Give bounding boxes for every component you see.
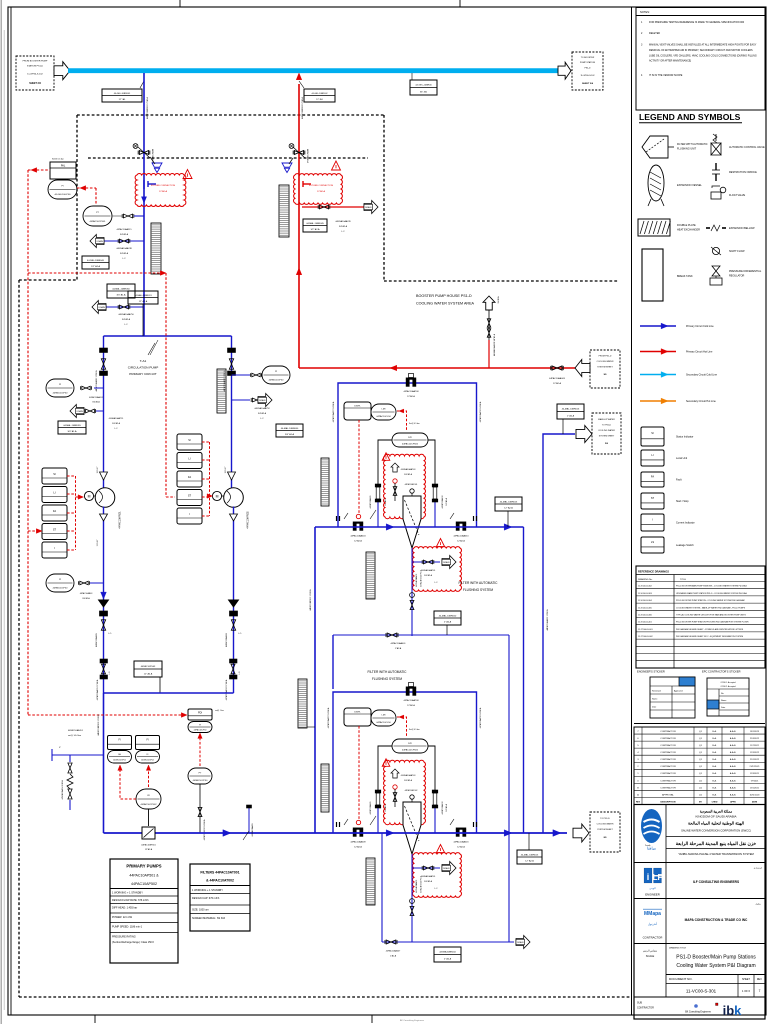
svg-text:L.C: L.C [341, 231, 345, 233]
svg-text:ACTIVITY OR AFTER MAINTENANCE): ACTIVITY OR AFTER MAINTENANCE) [649, 60, 691, 63]
relief valve [67, 763, 73, 799]
svg-text:استشاري: استشاري [754, 867, 763, 870]
svg-text:COOLING WATER SYSTEM - MAKE-UP: COOLING WATER SYSTEM - MAKE-UP WATER P&I… [676, 606, 746, 609]
manifold valve B2 [450, 819, 477, 849]
svg-text:12"A2.A: 12"A2.A [354, 846, 362, 849]
svg-text:DESIGN CAP: 676 m3/h: DESIGN CAP: 676 m3/h [192, 897, 220, 900]
lmi to dpi signal 2 [397, 715, 420, 737]
svg-text:44PAC10AA707 3/4"A2.A: 44PAC10AA707 3/4"A2.A [327, 707, 330, 728]
pump house boundary left upper [76, 115, 78, 280]
svg-text:18/1/2023: 18/1/2023 [750, 731, 760, 733]
svg-text:CONTRACTOR: CONTRACTOR [660, 786, 676, 789]
instrument bubble DPI 2 [392, 739, 428, 753]
instrument bubble PT2 [188, 768, 212, 784]
future connection cloud cold [135, 174, 186, 207]
riser left [314, 527, 316, 833]
svg-text:Primary Circuit Hot Line: Primary Circuit Hot Line [686, 351, 713, 354]
svg-text:FLUSHING UNIT: FLUSHING UNIT [677, 148, 697, 151]
vent line black [488, 310, 490, 340]
svg-text:44PAC10AA020: 44PAC10AA020 [454, 841, 470, 844]
svg-text:CONTRACTOR: CONTRACTOR [643, 936, 663, 940]
drain arrow 2 [92, 301, 106, 314]
svg-text:44PAC10BR010 3/4"A2.A: 44PAC10BR010 3/4"A2.A [203, 819, 206, 840]
signal drop pump2 [166, 273, 175, 497]
filter drain valve 1 [410, 570, 423, 610]
pump1 reducer [97, 466, 108, 480]
svg-text:44-MAL-10BR016: 44-MAL-10BR016 [562, 408, 580, 411]
safety branch pipe [52, 747, 104, 810]
filter outlet line [333, 633, 509, 689]
border frame inner left line [10, 7, 12, 1015]
svg-text:ibk: ibk [723, 1003, 743, 1018]
make-up water line [543, 434, 575, 833]
swcc logo [641, 809, 662, 851]
svg-text:REFERENCE DRAWINGS: REFERENCE DRAWINGS [638, 569, 669, 573]
manifold flow arrow A2 [386, 830, 394, 836]
svg-text:FLOAT VALVE: FLOAT VALVE [729, 194, 746, 197]
svg-text:1"A2.A: 1"A2.A [390, 955, 397, 958]
signal bottom run [28, 713, 187, 718]
instrument box PDI b [136, 736, 160, 750]
document number row [666, 975, 765, 998]
svg-text:SYSTEM SHEET: SYSTEM SHEET [597, 829, 613, 831]
future connection cloud hot [294, 174, 343, 205]
instrument bubble PI pump1 [46, 574, 74, 592]
svg-text:A.A.B.: A.A.B. [730, 793, 737, 796]
svg-text:DATE: DATE [752, 800, 758, 803]
svg-text:مقياس الرسم: مقياس الرسم [643, 950, 657, 953]
svg-text:12"A2.A: 12"A2.A [457, 540, 465, 543]
striped label left 1 [321, 458, 329, 506]
bypass valve 2 [404, 683, 420, 708]
svg-text:LS: LS [651, 540, 654, 544]
pt2 tap [198, 784, 206, 840]
notes header box [636, 8, 765, 16]
bypass loop 1 [338, 383, 477, 527]
svg-text:44GNA10AA752: 44GNA10AA752 [254, 407, 270, 410]
svg-text:DRAIN: DRAIN [517, 941, 524, 944]
svg-text:مقاول: مقاول [755, 903, 761, 906]
pump2 drain arrow [258, 394, 272, 407]
svg-text:DELETED: DELETED [649, 32, 660, 35]
svg-text:44PAC10BR010 12"A2.A: 44PAC10BR010 12"A2.A [97, 714, 100, 736]
svg-text:44PAC10BR001 12"/A2.A: 44PAC10BR001 12"/A2.A [146, 96, 149, 118]
svg-text:EXPANSION BELLOW: EXPANSION BELLOW [729, 227, 755, 230]
border tick top 1 [179, 0, 181, 7]
striped label box riser [298, 679, 315, 728]
title block frame [634, 805, 765, 1020]
svg-text:44-MAL-10BR015: 44-MAL-10BR015 [500, 500, 518, 503]
svg-text:44PAC13AA510: 44PAC13AA510 [441, 496, 444, 509]
make-up label box [557, 404, 584, 434]
svg-text:A.A.B.: A.A.B. [730, 772, 737, 775]
svg-text:44PAC10AA008: 44PAC10AA008 [351, 841, 367, 844]
svg-text:DRAIN: DRAIN [443, 867, 450, 870]
pump1 instrument stack [42, 468, 67, 558]
pump1 suction valve [95, 348, 108, 392]
svg-text:DISPL: DISPL [354, 712, 361, 714]
pump discharge header [104, 692, 234, 694]
svg-text:2" A2.A: 2" A2.A [444, 957, 452, 960]
legend restriction orifice [712, 163, 757, 181]
svg-text:DOUBLE PLATE: DOUBLE PLATE [677, 224, 696, 227]
svg-text:44PAC10AA514: 44PAC10AA514 [306, 149, 309, 163]
svg-text:TO BOOSTER: TO BOOSTER [581, 57, 595, 59]
svg-text:PUMP STATION: PUMP STATION [580, 61, 596, 64]
manifold flow arrow B2 [504, 830, 512, 836]
svg-text:44PAC10AA004: 44PAC10AA004 [351, 535, 367, 538]
svg-text:44GNA10BR004: 44GNA10BR004 [439, 951, 456, 954]
warning triangle cold cloud [183, 170, 192, 179]
svg-text:SHEET 2/4: SHEET 2/4 [582, 82, 594, 85]
svg-text:11-GPS0-S-102: 11-GPS0-S-102 [580, 75, 595, 77]
svg-text:DRAIN: DRAIN [259, 399, 266, 402]
drain branch 1 [104, 239, 144, 243]
svg-text:FILTER WITH AUTOMATIC: FILTER WITH AUTOMATIC [368, 670, 408, 674]
svg-text:SALINE WATER CONVERSION CORPOR: SALINE WATER CONVERSION CORPORATION (SWC… [681, 829, 751, 833]
svg-text:DRAIN: DRAIN [365, 206, 372, 209]
svg-text:44PAC10AA006: 44PAC10AA006 [225, 633, 228, 647]
main line tick b [243, 831, 249, 840]
instrument bubble b [136, 751, 160, 764]
svg-text:44-MAL-10BR011: 44-MAL-10BR011 [134, 294, 152, 297]
reference drawings table [636, 566, 765, 668]
filter drain pipe 2 [411, 854, 413, 942]
striped label left 2 [321, 764, 329, 812]
svg-text:Name: Name [721, 700, 727, 702]
safety valve text [68, 729, 84, 737]
pump2 suction leg [231, 336, 233, 488]
svg-text:44-MAL-10BR050: 44-MAL-10BR050 [439, 614, 457, 617]
svg-text:LUBE OIL COOLERS, VFD CHILLERS: LUBE OIL COOLERS, VFD CHILLERS, HVAC COO… [649, 54, 757, 57]
discharge riser [103, 693, 105, 833]
instrument bubble DPI 1 [392, 433, 428, 447]
bottom drain valve [385, 940, 401, 958]
warning triangle hot cloud [332, 161, 341, 170]
svg-text:CONTRACTOR: CONTRACTOR [660, 765, 676, 768]
pt tap line [112, 215, 122, 217]
hot return vertical pipe [298, 84, 300, 368]
svg-text:DRAWING No.: DRAWING No. [638, 578, 653, 581]
svg-text:3/4"/A2.A: 3/4"/A2.A [445, 803, 448, 811]
svg-text:B.A.: B.A. [712, 730, 717, 733]
label box pump discharge [134, 661, 162, 693]
filter flushing system label 1 [459, 581, 499, 592]
svg-text:L.O.: L.O. [238, 633, 242, 635]
svg-text:11-VC00-S-306: 11-VC00-S-306 [638, 615, 653, 617]
svg-text:Fault: Fault [676, 478, 682, 481]
svg-text:KINGDOM OF SAUDI ARABIA: KINGDOM OF SAUDI ARABIA [695, 815, 736, 819]
svg-text:LI: LI [188, 457, 190, 461]
svg-text:10"x12": 10"x12" [225, 466, 227, 473]
svg-text:44PAC10BR012 12"A2.A: 44PAC10BR012 12"A2.A [309, 589, 312, 611]
title block line 2 [634, 898, 765, 900]
striped label mid 1 [366, 552, 375, 599]
svg-text:P&I DIAGRAM LEGEND SHEET NO.2: P&I DIAGRAM LEGEND SHEET NO.2 - EQUIPMEN… [676, 635, 743, 638]
svg-text:BOOSTER PUMP HOUSE PS1-D: BOOSTER PUMP HOUSE PS1-D [416, 294, 472, 298]
svg-text:44GNA10AA405: 44GNA10AA405 [415, 574, 418, 587]
svg-text:DRAIN: DRAIN [77, 410, 84, 413]
legend title [639, 112, 742, 123]
svg-text:DIFF HEAD: 1.455 bar: DIFF HEAD: 1.455 bar [112, 907, 137, 910]
svg-text:1 WORKING + 1 STANDBY: 1 WORKING + 1 STANDBY [192, 889, 223, 892]
svg-text:(Suction/discharge flange): Cl: (Suction/discharge flange): Class 150 # [112, 941, 154, 944]
svg-text:44PAC10AA051: 44PAC10AA051 [89, 396, 103, 399]
instrument box PAL [50, 162, 76, 179]
svg-text:A.A.B.: A.A.B. [730, 779, 737, 782]
pump1 check valve [95, 600, 112, 647]
scan edge left [1, 0, 4, 1024]
svg-text:3/4"A2.A: 3/4"A2.A [424, 880, 432, 883]
booster pump house area label [416, 294, 475, 306]
signal trunk left [27, 170, 29, 715]
svg-text:44NDA10AA114 6"A2.A: 44NDA10AA114 6"A2.A [61, 780, 64, 800]
svg-text:LF: LF [653, 873, 663, 882]
svg-text:MANUAL VENT VALVES SHALL BE IN: MANUAL VENT VALVES SHALL BE INSTALLED AT… [649, 44, 757, 47]
svg-text:1"A2.A: 1"A2.A [395, 647, 402, 650]
svg-text:ST: ST [651, 496, 655, 500]
bottom drain arrow [516, 936, 530, 949]
svg-text:44-PAL-10BR040: 44-PAL-10BR040 [87, 259, 105, 262]
svg-text:CONTRACTOR: CONTRACTOR [660, 751, 676, 754]
pump1 suction drain [84, 409, 103, 413]
future flushing cloud A2 [382, 759, 425, 825]
svg-text:3/4" A1.A: 3/4" A1.A [67, 430, 77, 433]
svg-text:44PAC10CP50: 44PAC10CP50 [53, 586, 68, 589]
cold supply vertical pipe [143, 73, 145, 336]
svg-text:Secondary Circuit Cold Line: Secondary Circuit Cold Line [686, 374, 718, 377]
svg-text:SIZE: 1000 um: SIZE: 1000 um [192, 908, 209, 911]
svg-text:44PAC10AA003: 44PAC10AA003 [549, 377, 566, 380]
svg-text:SI: SI [651, 431, 654, 435]
svg-text:44PAC10CP50: 44PAC10CP50 [193, 779, 208, 782]
svg-text:44PAC10AA515: 44PAC10AA515 [117, 228, 133, 231]
svg-text:set@ 1 bar: set@ 1 bar [215, 709, 224, 712]
svg-text:A.A.B.: A.A.B. [730, 758, 737, 761]
svg-text:44-GEL-10BR00: 44-GEL-10BR00 [415, 85, 432, 87]
svg-text:PS1-D BOOSTER/MAIN PUMP STATIO: PS1-D BOOSTER/MAIN PUMP STATIONS - COOLI… [676, 585, 747, 588]
svg-text:44GNA10AA749: 44GNA10AA749 [335, 220, 351, 223]
svg-text:3/4"A2.A: 3/4"A2.A [404, 473, 412, 476]
svg-text:BK Consulting Engineers: BK Consulting Engineers [400, 1019, 425, 1022]
svg-text:B.A.: B.A. [712, 744, 717, 747]
svg-text:B.A.: B.A. [712, 765, 717, 768]
flushing drain cloud B1 [412, 539, 461, 592]
svg-text:Current Indicator: Current Indicator [676, 521, 695, 524]
cloud B drain arrow 1 [442, 556, 456, 569]
signal stub stack1 [28, 529, 42, 534]
pump2 header valve [225, 659, 241, 700]
svg-text:T-A1: T-A1 [140, 359, 147, 363]
svg-text:UPGRADED MAIN PUMP STATION PS1: UPGRADED MAIN PUMP STATION PS1-D - COOLI… [676, 592, 748, 595]
border tick bottom 1 [94, 1015, 96, 1023]
svg-text:ENGINEER: ENGINEER [645, 893, 660, 897]
svg-text:Primary Circuit Cold Line: Primary Circuit Cold Line [686, 325, 714, 328]
label box bottom drain [434, 947, 461, 962]
svg-text:7/7/2021: 7/7/2021 [751, 780, 760, 782]
svg-text:CHKD: CHKD [712, 801, 718, 803]
svg-text:SCREEN MATERIAL: SS 316: SCREEN MATERIAL: SS 316 [192, 917, 226, 920]
bypass loop 2 [333, 692, 477, 833]
legend instrument box ST [641, 493, 689, 509]
notes text [641, 21, 757, 77]
pump1 header valve [96, 659, 111, 700]
svg-text:3/4"A2.A: 3/4"A2.A [92, 401, 100, 404]
svg-text:44PAC10AA005: 44PAC10AA005 [95, 633, 98, 647]
dsr output signal 2 [356, 726, 360, 825]
drain funnel on cold supply [152, 163, 162, 173]
svg-text:44-MAL-10BR015: 44-MAL-10BR015 [521, 853, 539, 856]
filter manifold 1 [315, 526, 524, 528]
instrument bubble c [188, 722, 212, 733]
svg-text:M: M [88, 495, 91, 499]
pump2 drain [232, 398, 271, 402]
svg-text:44PAC10AA010: 44PAC10AA010 [454, 535, 470, 538]
svg-text:44-MAL-10BR060: 44-MAL-10BR060 [281, 427, 299, 430]
svg-text:REMOVAL OF ENTRAPPED AIR IN PR: REMOVAL OF ENTRAPPED AIR IN PRIMARY, SEC… [649, 49, 753, 52]
svg-text:FI: FI [118, 739, 120, 742]
svg-text:FI: FI [146, 739, 148, 742]
svg-text:FA: FA [53, 509, 56, 513]
svg-text:10"x12": 10"x12" [97, 466, 99, 473]
svg-text:CONTRACTOR: CONTRACTOR [660, 737, 676, 740]
make-up open arrow [576, 426, 592, 443]
legend secondary cold line [640, 372, 718, 378]
svg-text:44-MAL-10BR050: 44-MAL-10BR050 [112, 287, 130, 290]
instrument bubble PI pump1 suction [46, 379, 74, 397]
svg-text:FA: FA [188, 475, 191, 479]
displacement indicator box 2 [344, 708, 371, 726]
svg-text:12"A2.A: 12"A2.A [317, 190, 325, 193]
svg-text:44PAC10CP501: 44PAC10CP501 [90, 220, 107, 223]
pump house boundary bottom [19, 996, 630, 998]
dpi sense lines 1 [369, 440, 448, 527]
svg-text:SIGHT FLOW: SIGHT FLOW [729, 250, 745, 253]
svg-text:44PAC10AA710 3/4"A2.A: 44PAC10AA710 3/4"A2.A [479, 401, 482, 422]
pump1 discharge reducer [97, 514, 108, 546]
svg-text:44PAC10CP505: 44PAC10CP505 [402, 442, 419, 445]
svg-text:DISPL: DISPL [354, 406, 361, 408]
pump2 reducer [225, 466, 236, 480]
border tick top 2 [459, 0, 461, 7]
svg-text:3/4"A2.A Set@ PG=4: 3/4"A2.A Set@ PG=4 [420, 570, 423, 587]
svg-text:STATION PS1-D: STATION PS1-D [27, 65, 44, 68]
to booster pump station connector box [572, 52, 603, 90]
svg-text:LMI: LMI [382, 409, 386, 411]
svg-text:44-MAL-10BR045: 44-MAL-10BR045 [306, 222, 324, 225]
svg-text:COOLING WATER: COOLING WATER [597, 360, 614, 363]
lmi to dpi signal 1 [397, 409, 420, 431]
svg-text:YANBU-MADINA PHASE-4 WATER TRA: YANBU-MADINA PHASE-4 WATER TRANSMISSION … [678, 852, 754, 856]
svg-text:11-YT000-S-001: 11-YT000-S-001 [638, 629, 654, 631]
vent valve [487, 319, 491, 337]
svg-text:DPI: DPI [408, 743, 412, 745]
svg-text:12" A2.A: 12" A2.A [525, 860, 534, 863]
svg-text:PS1-D BOOSTER PUMP STATION PRO: PS1-D BOOSTER PUMP STATION PROCESS P&I D… [676, 621, 749, 624]
legend expansion vessel [648, 165, 702, 206]
pump1 pi tap [79, 581, 104, 600]
valve group on cold supply at wall [133, 144, 154, 163]
svg-text:3/4"A2.A: 3/4"A2.A [82, 597, 90, 600]
svg-text:FILTER WITH AUTOMATIC: FILTER WITH AUTOMATIC [677, 143, 708, 146]
inner boundary dashed line [88, 157, 368, 159]
svg-text:44GNA10AA748: 44GNA10AA748 [116, 247, 132, 250]
pump2 pi tap [232, 373, 262, 377]
signal stub PAL [28, 168, 50, 173]
svg-text:CONTRACTOR: CONTRACTOR [660, 730, 676, 733]
label box pump1 suction [58, 421, 86, 434]
legend automatic control valve [711, 134, 765, 155]
svg-text:44GNA10AA701: 44GNA10AA701 [421, 875, 437, 878]
svg-text:44PAC10CP505: 44PAC10CP505 [402, 748, 419, 751]
svg-text:44PAC10AA022 12"A2.A: 44PAC10AA022 12"A2.A [546, 609, 549, 631]
title block line 1 [634, 862, 765, 864]
svg-text:Reviewed: Reviewed [652, 691, 661, 693]
svg-text:44PAC10PS03: 44PAC10PS03 [141, 665, 156, 668]
svg-text:44GEL10CF02: 44GEL10CF02 [141, 760, 154, 762]
svg-text:44PAC10BP001: 44PAC10BP001 [141, 844, 156, 847]
svg-text:ENGINEER'S STICKER: ENGINEER'S STICKER [637, 670, 665, 674]
sight flow indicator [141, 827, 156, 851]
svg-text:FILTER WITH AUTOMATIC: FILTER WITH AUTOMATIC [459, 581, 499, 585]
pump house boundary bottom right [384, 280, 619, 282]
svg-text:44PAC10CL50: 44PAC10CL50 [376, 721, 391, 724]
svg-text:2" A2.A: 2" A2.A [444, 621, 452, 624]
striped label box hot return [279, 185, 289, 237]
valve group on hot return at wall [289, 144, 305, 158]
svg-text:44PAC10AA151: 44PAC10AA151 [68, 729, 84, 732]
svg-text:21/12/2021: 21/12/2021 [749, 766, 760, 768]
primary pumps data table [110, 859, 178, 963]
legend secondary hot line [640, 398, 716, 404]
drawing title [669, 947, 756, 970]
pump1 suction drain arrow [70, 405, 84, 418]
svg-text:FOR PRESSURE TESTING REFERENCE: FOR PRESSURE TESTING REFERENCE IS MADE T… [649, 21, 745, 24]
svg-text:44GNA10AA409: 44GNA10AA409 [251, 823, 254, 836]
svg-text:12"A2.A: 12"A2.A [145, 848, 153, 851]
svg-text:ST: ST [188, 494, 192, 498]
pump suction header [104, 335, 232, 337]
signal stub PI top [77, 186, 96, 204]
svg-text:66" /A1: 66" /A1 [420, 90, 428, 93]
svg-text:44PAC10AP502: 44PAC10AP502 [131, 882, 157, 886]
svg-text:44PAC13AA505: 44PAC13AA505 [369, 802, 372, 815]
pump2 discharge reducer [230, 514, 238, 521]
from booster pump station connector box [16, 56, 54, 90]
title block col line [665, 805, 667, 998]
manifold flow arrow B1 [504, 524, 512, 530]
main discharge line [104, 832, 568, 834]
pump2 drain labels [254, 407, 270, 420]
svg-text:44PAC10BR002 12"/A2.A: 44PAC10BR002 12"/A2.A [301, 96, 304, 118]
svg-text:44PAC10AA708: 44PAC10AA708 [404, 390, 420, 393]
dsr output signal 1 [356, 420, 360, 519]
svg-text:SYSTEM SHEET: SYSTEM SHEET [597, 367, 613, 369]
legend primary cold line [640, 323, 714, 329]
legend instrument box LI [641, 450, 687, 466]
svg-text:A.A.B.: A.A.B. [730, 751, 737, 754]
svg-text:L.C: L.C [434, 582, 438, 584]
to box open arrow [558, 62, 571, 79]
svg-text:1" A2.A: 1" A2.A [567, 414, 575, 417]
svg-text:1/2" A2.A: 1/2" A2.A [91, 265, 101, 268]
legend break tank [642, 249, 693, 301]
riser mid [523, 527, 525, 833]
swcc text block [666, 810, 765, 857]
svg-text:SHEET: SHEET [742, 978, 751, 981]
svg-text:FROM PS1-D: FROM PS1-D [599, 356, 612, 358]
svg-text:12"A2.A: 12"A2.A [407, 704, 415, 707]
